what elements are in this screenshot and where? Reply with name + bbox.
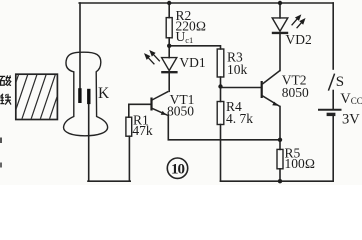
- wire VD2 anode lead: [279, 3, 281, 18]
- wire R5 bottom lead: [279, 169, 281, 181]
- resistor R1: [126, 117, 132, 136]
- svg-text:10k: 10k: [227, 62, 248, 77]
- svg-text:10: 10: [171, 162, 185, 178]
- wire R4 top lead: [220, 88, 222, 102]
- resistor R2: [166, 18, 172, 38]
- svg-text:8050: 8050: [282, 85, 309, 100]
- wire R4 ground lead: [220, 125, 222, 182]
- wire VD2 cathode to VT2 collector: [279, 34, 281, 71]
- wire junction to VT2 base: [221, 87, 261, 89]
- wire node Uc1 to R3: [169, 46, 220, 49]
- LED VD2 emission arrows: [292, 16, 305, 29]
- wire VD1 cathode to VT1 collector: [168, 73, 170, 91]
- magnet hatched box: [16, 74, 58, 119]
- svg-text:VD1: VD1: [179, 55, 205, 70]
- junction node Uc1: [167, 44, 171, 48]
- svg-text:3V: 3V: [342, 112, 360, 128]
- wire R2 top lead: [168, 3, 170, 18]
- label magnet char 铁: [0, 94, 11, 105]
- battery negative plate: [327, 113, 336, 116]
- wire bottom-left return (reed to R1): [88, 180, 130, 182]
- wire R3 bottom lead to junction: [220, 77, 222, 88]
- wire R1 top lead to VT1 base: [129, 104, 151, 117]
- wire VD1 anode lead: [168, 46, 170, 58]
- wire switch to battery: [332, 91, 334, 110]
- reed switch K envelope: [64, 52, 108, 136]
- wire VT2 emitter drop: [279, 107, 281, 140]
- svg-text:100Ω: 100Ω: [285, 156, 316, 171]
- LED VD1 emission arrows: [145, 51, 160, 64]
- svg-text:S: S: [336, 74, 344, 90]
- wire top supply rail: [79, 2, 333, 4]
- scan artifact left edge marks: [0, 138, 2, 144]
- label magnet char 磁: [0, 75, 11, 85]
- junction node R2 top: [167, 1, 171, 5]
- reed contact left (top): [78, 88, 81, 103]
- wire battery negative to ground rail: [332, 116, 334, 181]
- reed contact right (bottom): [87, 89, 90, 104]
- transistor VT2: [261, 71, 280, 107]
- junction node VD2 top: [278, 1, 282, 5]
- junction node R3/R4/VT2 base: [218, 84, 222, 88]
- wire bottom ground rail: [221, 180, 334, 182]
- transistor VT1: [150, 91, 168, 115]
- svg-text:VD2: VD2: [286, 32, 312, 47]
- wire emitter rail VT1 to R5: [168, 116, 280, 140]
- wire right edge upper (to switch): [332, 3, 334, 69]
- wire R5 top lead: [279, 140, 281, 150]
- LED VD2: [272, 18, 288, 33]
- resistor R3: [217, 49, 224, 77]
- switch S blade: [328, 74, 334, 91]
- figure number 10: [167, 158, 187, 178]
- LED VD1: [161, 58, 177, 73]
- wire R2 bottom lead to node Uc1: [168, 38, 170, 46]
- wire reed switch bottom lead: [88, 104, 90, 182]
- svg-text:47k: 47k: [132, 123, 153, 138]
- wire reed switch top lead: [79, 3, 81, 89]
- junction node R5 bottom: [278, 179, 282, 183]
- resistor R4: [217, 102, 224, 125]
- svg-text:K: K: [98, 85, 110, 102]
- battery positive plate: [318, 109, 342, 111]
- svg-text:8050: 8050: [167, 103, 194, 118]
- resistor R5: [277, 149, 283, 168]
- wire R1 bottom lead: [128, 136, 130, 181]
- svg-text:4. 7k: 4. 7k: [226, 111, 253, 126]
- junction node R5 top: [278, 138, 282, 142]
